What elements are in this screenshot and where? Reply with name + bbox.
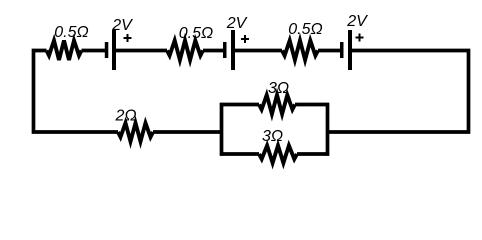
battery B3 plus sign: [356, 34, 364, 42]
wire: left side + bottom-left run: [34, 51, 119, 133]
svg-text:0.5Ω: 0.5Ω: [179, 25, 213, 42]
svg-text:2V: 2V: [226, 15, 248, 32]
svg-text:2Ω: 2Ω: [114, 108, 136, 125]
wire: R2 to battery B2: [203, 49, 223, 53]
battery B1 plus sign: [124, 34, 132, 42]
svg-text:0.5Ω: 0.5Ω: [288, 21, 322, 38]
svg-text:2V: 2V: [111, 17, 133, 34]
svg-text:2V: 2V: [346, 13, 368, 30]
wire: battery B1 to R2: [116, 49, 167, 53]
battery B3 positive long plate: [348, 30, 352, 70]
resistor R5 3-ohm top zigzag: [259, 95, 295, 114]
battery B2 plus sign: [241, 35, 249, 43]
wire: bottom branch right lead: [297, 152, 329, 156]
resistor R4 2-ohm zigzag: [118, 123, 153, 142]
resistor R3 0.5-ohm zigzag: [282, 41, 318, 61]
wire: 2-ohm resistor to parallel box left edge: [153, 130, 222, 134]
wire: bottom branch left lead: [220, 152, 259, 156]
svg-text:3Ω: 3Ω: [268, 80, 289, 97]
resistor R2 0.5-ohm zigzag: [167, 41, 203, 61]
battery B1 positive long plate: [112, 30, 116, 70]
wire: top branch left lead: [220, 103, 259, 107]
battery B3 negative short plate: [340, 42, 344, 58]
wire: R3 to battery B3: [318, 49, 340, 53]
svg-text:0.5Ω: 0.5Ω: [54, 24, 88, 41]
node: parallel box left edge: [220, 103, 224, 156]
wire: battery B2 to R3: [235, 49, 282, 53]
battery B1 negative short plate: [105, 42, 109, 58]
wire: top branch right lead: [295, 103, 329, 107]
wire: R1 to battery B1: [82, 49, 106, 53]
node: parallel box right edge: [326, 103, 330, 156]
resistor R1 0.5-ohm zigzag: [47, 41, 82, 61]
battery B2 positive long plate: [231, 30, 235, 70]
wire: box exit + right side + top-right run: [328, 51, 469, 133]
resistor R6 3-ohm bottom zigzag: [259, 146, 297, 164]
svg-text:3Ω: 3Ω: [262, 128, 283, 145]
battery B2 negative short plate: [223, 42, 227, 58]
